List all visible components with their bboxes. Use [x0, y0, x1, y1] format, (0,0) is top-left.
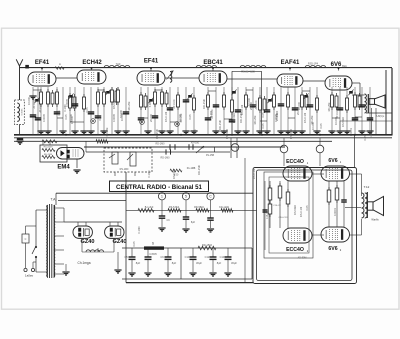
svg-text:RD-1M0: RD-1M0	[156, 143, 166, 146]
svg-text:RD-1M0: RD-1M0	[155, 129, 159, 139]
svg-text:RD-25k: RD-25k	[127, 101, 131, 110]
svg-text:8µF: 8µF	[172, 261, 177, 265]
svg-text:KN-1k0: KN-1k0	[191, 142, 200, 145]
svg-text:AT-0.04: AT-0.04	[172, 99, 176, 108]
svg-text:0.1M0: 0.1M0	[137, 226, 141, 234]
svg-text:0.05: 0.05	[98, 115, 102, 121]
svg-text:C6: C6	[160, 255, 164, 259]
svg-text:C12: C12	[205, 255, 210, 259]
svg-text:10.000: 10.000	[119, 109, 123, 117]
svg-text:6V6: 6V6	[331, 62, 342, 68]
svg-text:AT-0.04: AT-0.04	[32, 99, 36, 108]
svg-text:ECC4O: ECC4O	[286, 247, 304, 253]
svg-text:RS-50k0: RS-50k0	[172, 168, 176, 179]
svg-text:GZ40: GZ40	[113, 239, 127, 245]
svg-text:0.0005: 0.0005	[369, 129, 373, 137]
svg-text:10.000: 10.000	[297, 101, 301, 109]
svg-text:0.0001: 0.0001	[333, 207, 337, 215]
svg-text:0.0505: 0.0505	[149, 253, 157, 256]
svg-text:10.000: 10.000	[27, 96, 31, 104]
svg-text:RD-25k: RD-25k	[327, 102, 331, 111]
svg-text:RS-23-4180: RS-23-4180	[241, 71, 255, 74]
svg-text:RD-1M0: RD-1M0	[161, 157, 171, 160]
svg-text:20.000: 20.000	[149, 113, 153, 121]
svg-text:8µF: 8µF	[191, 221, 196, 224]
svg-text:m: m	[59, 63, 61, 66]
svg-text:C: C	[25, 238, 27, 241]
svg-text:C16-C2: C16-C2	[273, 205, 281, 207]
svg-text:RS-50k0: RS-50k0	[232, 112, 236, 123]
svg-text:1a0av: 1a0av	[25, 274, 34, 278]
svg-text:0.05: 0.05	[305, 205, 309, 211]
svg-text:RS-50k0: RS-50k0	[225, 128, 229, 139]
svg-text:ECC4O: ECC4O	[286, 159, 304, 165]
svg-text:0.05: 0.05	[261, 123, 265, 129]
svg-text:EAF41: EAF41	[281, 60, 300, 66]
svg-text:0.0005: 0.0005	[42, 113, 46, 121]
svg-text:FS-15B: FS-15B	[206, 154, 215, 157]
svg-text:AT-0.04: AT-0.04	[335, 109, 339, 118]
svg-text:RD-1M0: RD-1M0	[218, 120, 222, 130]
svg-text:T.12: T.12	[364, 185, 370, 189]
svg-text:AD-50M: AD-50M	[298, 257, 307, 260]
svg-text:RS-0.1M: RS-0.1M	[252, 169, 256, 179]
svg-text:30µF: 30µF	[231, 261, 237, 265]
svg-text:RS-1M0: RS-1M0	[120, 168, 129, 171]
svg-text:0.05: 0.05	[261, 112, 265, 118]
svg-text:8µF: 8µF	[217, 261, 222, 265]
svg-text:0.05: 0.05	[85, 107, 89, 113]
svg-text:S: S	[152, 242, 154, 246]
svg-text:RD-25k: RD-25k	[179, 113, 183, 122]
svg-text:EF41: EF41	[144, 59, 159, 65]
svg-text:C13: C13	[220, 255, 225, 259]
svg-text:5.000: 5.000	[209, 110, 213, 117]
svg-text:6V6: 6V6	[328, 246, 337, 252]
svg-text:C10: C10	[185, 255, 190, 259]
svg-text:RS-50k0: RS-50k0	[293, 204, 297, 215]
svg-text:6V6: 6V6	[328, 158, 337, 164]
svg-text:EM4: EM4	[57, 165, 70, 171]
svg-text:RS5-1P4: RS5-1P4	[308, 63, 319, 66]
svg-text:RD-1M0: RD-1M0	[197, 165, 201, 175]
svg-text:A.B(C)s: A.B(C)s	[376, 115, 385, 118]
svg-text:ECH42: ECH42	[82, 60, 102, 66]
svg-text:RD-1M0: RD-1M0	[239, 113, 243, 123]
svg-text:0.0005: 0.0005	[112, 113, 116, 121]
svg-text:Warfls: Warfls	[371, 218, 379, 222]
svg-text:0.0005: 0.0005	[65, 98, 69, 106]
svg-text:RS-50k0: RS-50k0	[289, 128, 293, 139]
svg-text:RD-0009: RD-0009	[44, 147, 54, 149]
svg-text:AT-0.04: AT-0.04	[254, 100, 258, 109]
svg-text:F1-1M8: F1-1M8	[187, 167, 196, 170]
svg-text:RS-0.1M: RS-0.1M	[164, 112, 168, 122]
svg-text:GZ40: GZ40	[81, 239, 95, 245]
svg-text:C16-C13: C16-C13	[279, 217, 289, 219]
svg-text:B-1.2k0: B-1.2k0	[145, 206, 154, 209]
svg-text:C5: C5	[124, 255, 128, 259]
svg-text:RS-50k0: RS-50k0	[341, 116, 345, 127]
svg-text:7H0: 7H0	[116, 62, 121, 66]
svg-text:0.0001: 0.0001	[349, 127, 353, 135]
svg-text:1: 1	[161, 195, 163, 199]
svg-text:30µF: 30µF	[196, 261, 202, 265]
svg-text:Ch.1mga: Ch.1mga	[78, 261, 91, 265]
svg-text:20.000: 20.000	[249, 101, 253, 109]
svg-text:AT-0.04: AT-0.04	[38, 103, 42, 112]
svg-text:RD-2M5: RD-2M5	[44, 154, 53, 156]
svg-text:T.A: T.A	[51, 198, 57, 202]
svg-text:0.1M0: 0.1M0	[147, 170, 151, 178]
svg-text:0.05: 0.05	[319, 123, 323, 129]
svg-text:0.05: 0.05	[188, 114, 192, 120]
svg-text:EF41: EF41	[35, 60, 50, 66]
svg-text:0.05: 0.05	[64, 114, 68, 120]
svg-text:RD-25k: RD-25k	[105, 127, 109, 136]
svg-text:RS-0.1M: RS-0.1M	[303, 113, 307, 123]
svg-text:RD-1M0: RD-1M0	[202, 99, 206, 109]
svg-text:EBC41: EBC41	[203, 60, 223, 66]
svg-text:0.0005: 0.0005	[22, 108, 24, 115]
svg-text:5: 5	[185, 195, 187, 199]
svg-text:RS-50k0: RS-50k0	[112, 98, 116, 109]
svg-text:0.05: 0.05	[363, 135, 367, 141]
svg-text:10.000: 10.000	[69, 113, 73, 121]
svg-text:0.05: 0.05	[132, 241, 136, 247]
svg-text:RD-15k0: RD-15k0	[202, 243, 213, 247]
svg-text:8µF: 8µF	[136, 261, 141, 265]
svg-text:RS-0.1M: RS-0.1M	[299, 207, 303, 217]
svg-text:BgA: BgA	[342, 65, 347, 68]
svg-text:10.000: 10.000	[311, 121, 315, 129]
svg-text:RD-25k: RD-25k	[253, 115, 257, 124]
svg-text:0.05: 0.05	[57, 110, 61, 116]
svg-text:5.000: 5.000	[275, 110, 279, 117]
svg-text:CENTRAL RADIO - Bicanal 51: CENTRAL RADIO - Bicanal 51	[116, 184, 203, 191]
svg-text:0.05: 0.05	[193, 129, 197, 135]
